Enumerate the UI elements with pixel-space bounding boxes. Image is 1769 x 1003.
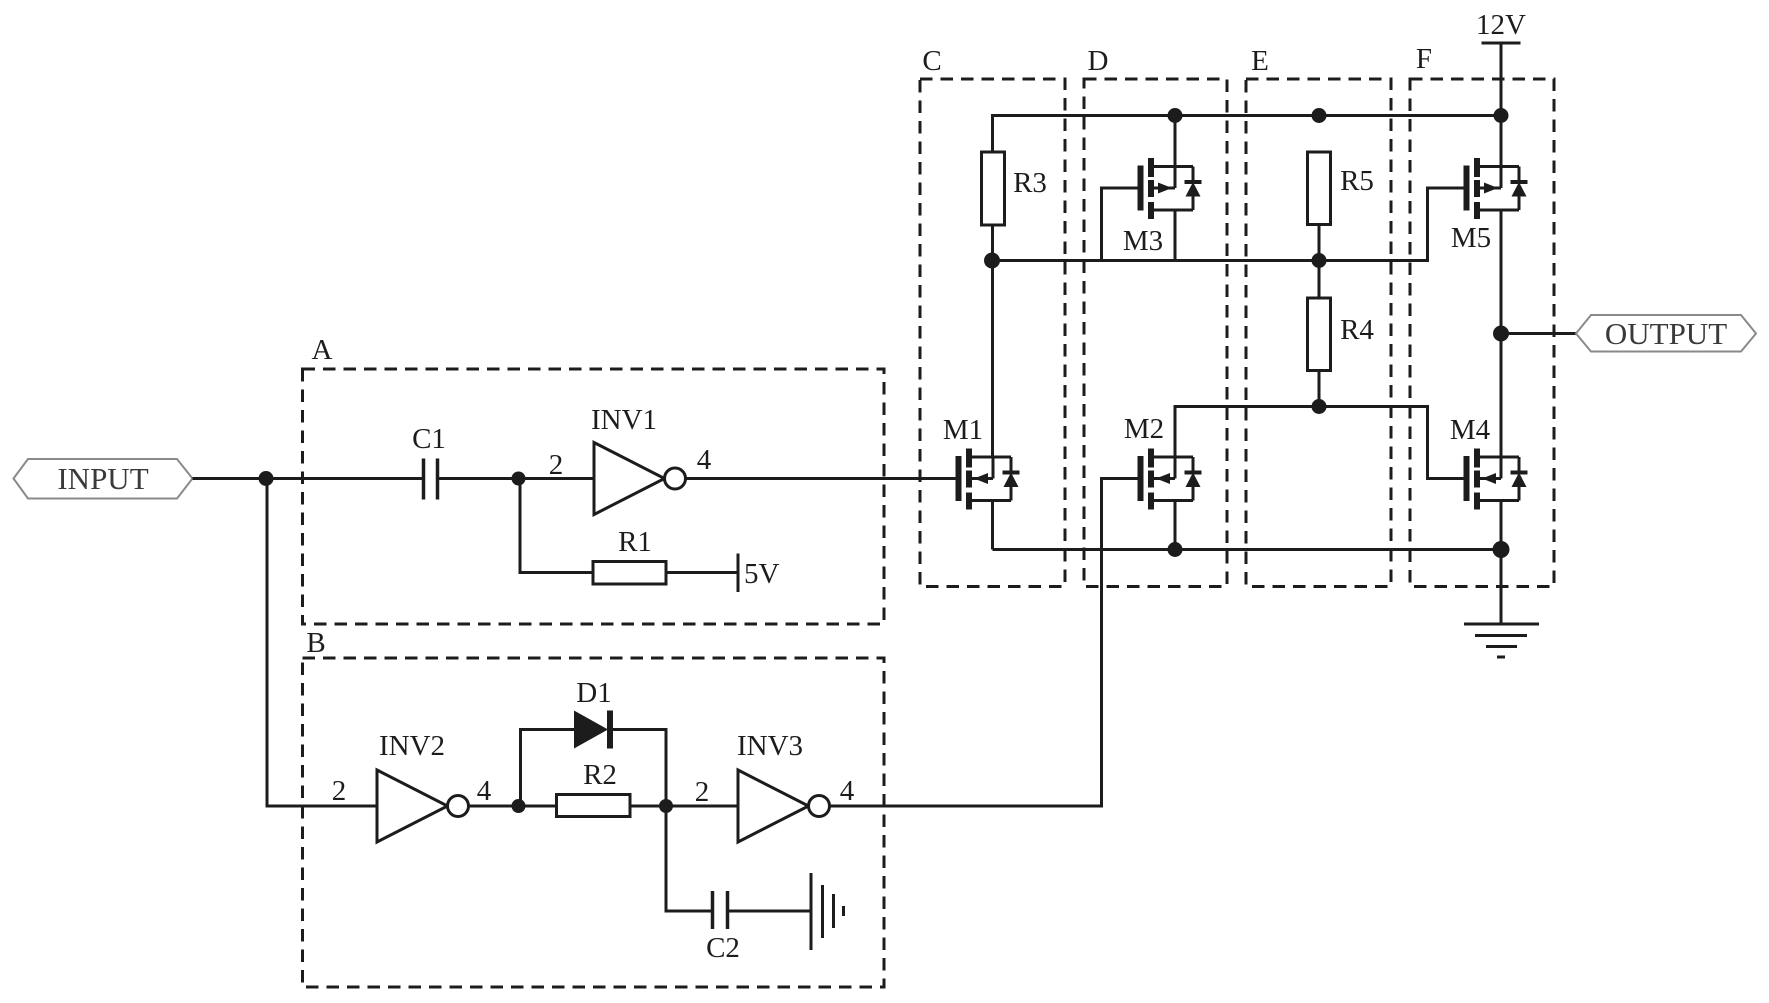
dashed box F <box>1410 79 1554 587</box>
label R4 <box>1340 314 1374 346</box>
label M3 <box>1123 225 1163 257</box>
wire node G1 to M5 gate run <box>992 188 1464 261</box>
wire node IN down to INV2 input <box>267 479 377 807</box>
svg-text:INV3: INV3 <box>737 730 803 762</box>
wire node IN to C1 <box>266 477 422 480</box>
wire OUTPUT node to flag <box>1501 332 1576 335</box>
wire M2 source down to bottom rail <box>1174 501 1177 550</box>
label M4 <box>1450 414 1491 446</box>
wire node B1 to R2 <box>519 805 557 808</box>
label R5 <box>1340 165 1374 197</box>
svg-text:5V: 5V <box>744 558 780 590</box>
wire top rail horizontal <box>993 116 1502 153</box>
transistor M3 <box>1138 158 1202 219</box>
dashed box C <box>920 79 1065 587</box>
label C2 <box>706 932 740 964</box>
svg-text:OUTPUT: OUTPUT <box>1605 316 1727 351</box>
pin number 2 of INV3 <box>695 776 710 808</box>
svg-text:M5: M5 <box>1451 222 1491 254</box>
svg-text:2: 2 <box>549 449 564 481</box>
wire INPUT to node IN <box>193 477 268 480</box>
pin number 2 of INV1 <box>549 449 564 481</box>
transistor M1 <box>956 449 1020 510</box>
wire node 2A to INV1 input <box>519 477 595 480</box>
diode D1 <box>574 711 613 749</box>
node bottom-M2 junction dot <box>1168 542 1183 557</box>
wire node B1 up to D1 anode <box>521 730 575 807</box>
label R3 <box>1013 167 1047 199</box>
node OUTPUT junction dot <box>1493 326 1509 342</box>
resistor R2 <box>557 795 631 817</box>
wire R5 bottom to node G1 run <box>1318 225 1321 261</box>
block label A <box>312 334 333 366</box>
INPUT port flag <box>14 459 193 499</box>
dashed box A <box>303 369 885 624</box>
svg-text:M3: M3 <box>1123 225 1163 257</box>
label INV1 <box>591 404 657 436</box>
dashed box D <box>1084 79 1227 587</box>
capacitor C2 <box>713 891 728 929</box>
resistor R1 <box>593 562 666 585</box>
svg-text:R5: R5 <box>1340 165 1374 197</box>
wire node G2 to M4 gate <box>1319 407 1464 479</box>
svg-text:D: D <box>1088 45 1109 77</box>
svg-text:M1: M1 <box>943 414 983 446</box>
pin number 4 of INV3 <box>840 775 855 807</box>
svg-text:B: B <box>306 627 325 659</box>
svg-text:4: 4 <box>697 444 712 476</box>
svg-text:E: E <box>1251 45 1269 77</box>
node B1 junction dot <box>512 799 526 813</box>
wire C2 to ground <box>729 910 811 913</box>
label M2 <box>1124 413 1164 445</box>
wire M3 drain up to rail <box>1174 116 1177 167</box>
node rail-R5 junction dot <box>1312 108 1327 123</box>
wire C1 to node 2A <box>439 477 520 480</box>
wire M3 source down to node G1 run <box>1174 210 1177 261</box>
block label F <box>1416 43 1432 75</box>
label M1 <box>943 414 983 446</box>
block label B <box>306 627 325 659</box>
svg-text:R2: R2 <box>583 759 617 791</box>
svg-text:INV1: INV1 <box>591 404 657 436</box>
wire node G1 down to M1 drain <box>991 261 994 458</box>
node bottom-M4 junction dot <box>1493 541 1510 558</box>
wire R2 to node B2 <box>630 805 666 808</box>
pin number 2 of INV2 <box>332 775 347 807</box>
wire INV1 output to M1 gate <box>686 477 956 480</box>
label D1 <box>576 677 611 709</box>
label 5V <box>744 558 780 590</box>
wire INV2 output to node B1 <box>469 805 521 808</box>
inverter INV3 <box>738 770 830 842</box>
node rail-12V junction dot <box>1494 108 1509 123</box>
capacitor C1 <box>424 459 438 500</box>
wire node G1 run down to R4 <box>1318 261 1321 299</box>
wire R3 bottom to node G1 <box>991 225 994 261</box>
wire M1 source down to bottom rail <box>991 501 994 550</box>
transistor M5 <box>1464 158 1528 219</box>
wire node 2A down to R1 <box>520 479 593 573</box>
node IN junction dot <box>259 471 274 486</box>
transistor M2 <box>1138 449 1202 510</box>
label INV3 <box>737 730 803 762</box>
resistor R3 <box>982 152 1005 225</box>
wire R1 to 5V <box>666 571 738 574</box>
svg-text:C2: C2 <box>706 932 740 964</box>
svg-text:C1: C1 <box>412 423 446 455</box>
svg-text:2: 2 <box>695 776 710 808</box>
transistor M4 <box>1464 449 1528 510</box>
block label C <box>922 45 941 77</box>
label 12V <box>1476 9 1526 41</box>
node 2A junction dot <box>512 472 526 486</box>
svg-text:INPUT: INPUT <box>57 461 148 496</box>
OUTPUT port flag <box>1576 315 1756 352</box>
label R2 <box>583 759 617 791</box>
svg-text:M4: M4 <box>1450 414 1491 446</box>
svg-text:2: 2 <box>332 775 347 807</box>
wire M4 source down to ground <box>1500 501 1503 625</box>
wire node G2 to M2 drain <box>1175 407 1319 458</box>
svg-text:12V: 12V <box>1476 9 1526 41</box>
svg-text:R3: R3 <box>1013 167 1047 199</box>
inverter INV2 <box>377 770 469 842</box>
block label E <box>1251 45 1269 77</box>
svg-text:R4: R4 <box>1340 314 1374 346</box>
label C1 <box>412 423 446 455</box>
dashed box E <box>1246 79 1391 587</box>
wire bottom rail <box>993 548 1502 551</box>
ground of C2 <box>811 873 844 950</box>
block label D <box>1088 45 1109 77</box>
label M5 <box>1451 222 1491 254</box>
pin number 4 of INV1 <box>697 444 712 476</box>
resistor R4 <box>1308 298 1331 371</box>
label INV2 <box>379 730 445 762</box>
svg-text:C: C <box>922 45 941 77</box>
svg-text:R1: R1 <box>618 526 652 558</box>
label R1 <box>618 526 652 558</box>
wire M3 gate jog <box>1102 188 1138 261</box>
wire node B2 to INV3 input <box>666 805 738 808</box>
wire R4 bottom to node G2 <box>1318 371 1321 407</box>
ground main <box>1464 624 1539 657</box>
svg-text:INV2: INV2 <box>379 730 445 762</box>
node B2 junction dot <box>659 799 673 813</box>
wire D1 cathode to node B2 <box>613 730 666 807</box>
svg-text:D1: D1 <box>576 677 611 709</box>
svg-text:A: A <box>312 334 333 366</box>
wire node B2 down to C2 <box>666 806 712 911</box>
resistor R5 <box>1308 152 1331 225</box>
svg-text:4: 4 <box>840 775 855 807</box>
power symbol 12V <box>1482 42 1521 45</box>
node G2 junction dot <box>1312 399 1327 414</box>
wire M5 source down through OUTPUT node to M4 drain <box>1500 210 1503 457</box>
svg-text:M2: M2 <box>1124 413 1164 445</box>
power symbol 5V <box>737 554 740 593</box>
inverter INV1 <box>594 443 686 515</box>
wire INV3 output to M2 gate <box>830 479 1138 807</box>
svg-text:F: F <box>1416 43 1432 75</box>
node G1 junction dot <box>984 253 1000 269</box>
node rail-M3 junction dot <box>1168 108 1183 123</box>
dashed box B <box>303 658 885 987</box>
wire 12V rail down to M5 drain <box>1500 43 1503 167</box>
node G1-R5R4 junction dot <box>1312 253 1327 268</box>
pin number 4 of INV2 <box>477 775 492 807</box>
svg-text:4: 4 <box>477 775 492 807</box>
